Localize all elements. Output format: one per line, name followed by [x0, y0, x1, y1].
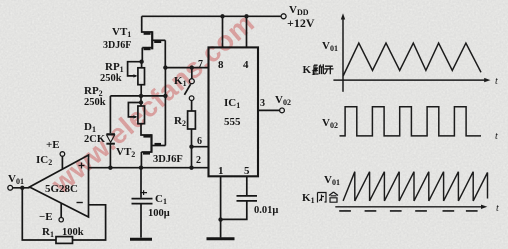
- wire pin1 ground lead: [220, 176, 222, 237]
- waveform 2 square: [340, 107, 482, 136]
- junction pin6 line: [189, 145, 193, 149]
- wire RP2 top: [140, 96, 142, 106]
- junction RP2 wiper: [139, 100, 143, 104]
- svg-text:3DJ6F: 3DJ6F: [153, 154, 183, 165]
- junction RP1 top / VT1 gate: [139, 60, 143, 64]
- svg-text:IC2: IC2: [36, 154, 52, 167]
- waveform 1 triangle: [333, 19, 486, 92]
- resistor R1: [56, 237, 73, 244]
- svg-text:2: 2: [196, 155, 201, 166]
- hanzi 断开 (K1 open): [314, 64, 334, 74]
- terminal V02: [280, 108, 285, 113]
- svg-text:V01: V01: [324, 174, 340, 187]
- svg-text:8: 8: [218, 59, 224, 71]
- potentiometer RP1: [128, 62, 145, 85]
- wire VT1-source/VT2-drain column: [164, 68, 166, 146]
- svg-text:6: 6: [197, 136, 202, 147]
- svg-text:3: 3: [260, 98, 265, 109]
- wire RP2 bottom to VT2 gate: [141, 124, 152, 135]
- svg-text:5G28C: 5G28C: [45, 183, 78, 195]
- junction C1 top: [139, 166, 143, 170]
- diode D1: [106, 96, 115, 168]
- junction pin8 rail: [220, 14, 224, 18]
- wire pin5 lead: [246, 176, 248, 195]
- wire pin3 output: [258, 109, 280, 111]
- ground (555 pin1): [207, 237, 235, 240]
- svg-text:K1: K1: [174, 75, 187, 88]
- hanzi 闭合 (K1 closed): [318, 192, 339, 203]
- wire VT1 gate down to RP1: [141, 48, 144, 68]
- svg-text:R1: R1: [42, 226, 54, 239]
- svg-text:250k: 250k: [100, 73, 122, 84]
- wire main bottom node line (opamp + input / pin2 / C1): [89, 167, 209, 169]
- capacitor 0.01u: [221, 196, 257, 220]
- svg-text:VT2: VT2: [116, 146, 135, 159]
- resistor R2: [188, 111, 196, 129]
- wire pin4 lead: [246, 16, 248, 47]
- svg-text:2CK: 2CK: [84, 134, 106, 145]
- svg-text:+12V: +12V: [287, 16, 315, 30]
- wire VT1 source to pin7 line: [164, 40, 166, 67]
- svg-text:555: 555: [224, 116, 241, 128]
- wire pin7 line: [165, 67, 208, 69]
- wire R1 to V01: [22, 188, 56, 240]
- terminal +E: [60, 152, 65, 169]
- svg-text:V02: V02: [322, 117, 338, 130]
- op-amp IC2: [30, 155, 89, 217]
- capacitor C1: [132, 168, 153, 238]
- svg-text:K1: K1: [302, 192, 315, 205]
- terminal VDD: [281, 14, 286, 19]
- svg-text:IC1: IC1: [224, 97, 240, 110]
- svg-text:V01: V01: [322, 40, 338, 53]
- svg-text:V02: V02: [275, 94, 291, 107]
- svg-text:R2: R2: [174, 115, 186, 128]
- svg-text:V01: V01: [8, 173, 24, 186]
- wire RP1 bottom: [140, 85, 142, 96]
- svg-text:K1: K1: [303, 64, 316, 77]
- junction ground node: [218, 217, 222, 221]
- transistor VT1: [142, 16, 166, 49]
- potentiometer RP2: [128, 103, 144, 124]
- ground (C1): [130, 238, 152, 241]
- waveform 3 sawtooth: [335, 172, 487, 211]
- terminal -E: [59, 204, 63, 222]
- junction pin4 rail: [244, 14, 248, 18]
- svg-text:4: 4: [243, 59, 249, 71]
- svg-text:100k: 100k: [62, 227, 84, 238]
- svg-text:t: t: [495, 76, 498, 87]
- svg-text:C1: C1: [155, 193, 167, 206]
- junction R2 bottom / pin2 line: [189, 166, 193, 170]
- junction D1 / C1 node line: [108, 166, 112, 170]
- junction V01 output node: [20, 186, 24, 190]
- wire opamp output: [13, 187, 30, 189]
- wire node line RP1/RP2/VT2-drain: [110, 95, 165, 97]
- terminal V01: [8, 185, 13, 190]
- junction node line / VT2 drain column: [163, 94, 167, 98]
- junction K1 / pin7 line: [190, 65, 194, 69]
- wire opamp inverting feedback: [73, 205, 106, 240]
- wire R2 bottom column: [191, 129, 193, 168]
- watermark: [46, 7, 261, 200]
- wire pin6 line: [192, 146, 209, 148]
- svg-text:−E: −E: [39, 211, 53, 223]
- svg-text:0.01μ: 0.01μ: [254, 205, 278, 216]
- svg-text:+E: +E: [46, 139, 60, 151]
- transistor VT2: [141, 134, 165, 153]
- svg-text:t: t: [495, 131, 498, 142]
- wire VT2 source down: [140, 152, 142, 168]
- junction RP1 bottom / RP2 top: [139, 94, 143, 98]
- svg-text:250k: 250k: [84, 97, 106, 108]
- svg-text:1: 1: [218, 165, 224, 177]
- wire VDD top rail: [142, 15, 281, 17]
- svg-text:VT1: VT1: [112, 26, 131, 39]
- svg-text:5: 5: [244, 165, 250, 177]
- wire pin8 lead: [222, 16, 224, 47]
- svg-text:7: 7: [198, 59, 203, 70]
- IC1 555 box: [209, 47, 259, 176]
- svg-text:3DJ6F: 3DJ6F: [103, 40, 131, 51]
- junction VT1 source / pin7 line: [163, 65, 167, 69]
- svg-text:D1: D1: [84, 121, 96, 134]
- svg-text:100μ: 100μ: [148, 208, 170, 219]
- switch K1: [184, 68, 194, 111]
- svg-text:t: t: [496, 203, 499, 214]
